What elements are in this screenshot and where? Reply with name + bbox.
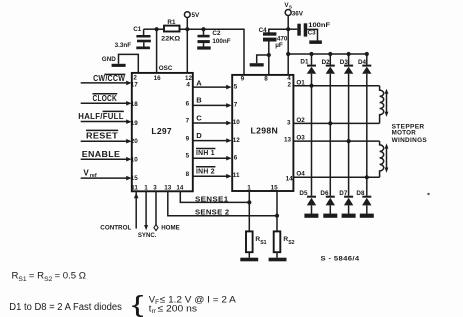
svg-text:C: C (196, 114, 202, 123)
svg-text:2: 2 (288, 82, 292, 89)
resistor R1 22KΩ (157, 19, 188, 42)
wire O1 (L298N pin 2 to winding 1) (293, 80, 379, 87)
svg-text:6: 6 (186, 101, 190, 108)
capacitor C2 100nF (198, 29, 231, 46)
svg-text:12: 12 (233, 137, 241, 144)
inductor winding 2 (between O3 and O4) (380, 141, 389, 177)
diode D4 (358, 54, 372, 196)
svg-text:SENSE 2: SENSE 2 (195, 207, 230, 216)
wire OSC vertical to L297 pin 16 (156, 29, 158, 73)
svg-text:MOTOR: MOTOR (392, 130, 417, 137)
wire B (L297 pin 6 to L298N pin 7) (193, 96, 232, 108)
svg-text:C4: C4 (259, 27, 268, 34)
node (O1/D1) (309, 84, 313, 88)
svg-text:D1 to D8 = 2 A Fast diodes: D1 to D8 = 2 A Fast diodes (9, 302, 122, 313)
wire L298N pin 1 down (248, 191, 250, 231)
wire 5V rail to L297 pin 12 (186, 29, 188, 73)
svg-text:S2: S2 (44, 276, 52, 283)
svg-text:HALF/FULL: HALF/FULL (78, 112, 124, 121)
capacitor C3 100nF (288, 22, 330, 41)
svg-text:V: V (83, 168, 89, 177)
svg-text:22KΩ: 22KΩ (161, 35, 180, 42)
svg-text:8: 8 (186, 171, 190, 178)
op-amp U1 : L297 chip box (132, 73, 193, 191)
svg-text:O3: O3 (296, 134, 305, 141)
svg-text:4: 4 (186, 82, 190, 89)
diode D5 (299, 190, 316, 214)
svg-text:9: 9 (241, 75, 245, 82)
svg-text:8: 8 (264, 75, 268, 82)
svg-text:= 0.5 Ω: = 0.5 Ω (55, 271, 86, 282)
capacitor C4 470µF (259, 27, 289, 75)
terminal 5V (184, 12, 200, 30)
svg-text:S2: S2 (288, 240, 294, 246)
svg-text:ENABLE: ENABLE (82, 150, 121, 159)
svg-text:S: S (289, 5, 292, 10)
svg-text:11: 11 (233, 172, 240, 179)
svg-text:15: 15 (271, 184, 279, 191)
svg-text:WINDINGS: WINDINGS (392, 137, 428, 144)
wire INH1 (L297 pin 5 to L298N pin 6) (193, 148, 232, 160)
transistor U2 : L298N chip box (232, 75, 293, 191)
diode D8 (356, 190, 371, 214)
svg-text:B: B (196, 96, 202, 105)
brace (132, 292, 144, 317)
note trr (149, 303, 197, 315)
svg-text:3.3nF: 3.3nF (115, 42, 132, 49)
svg-text:15: 15 (131, 175, 139, 182)
svg-text:13: 13 (284, 137, 292, 144)
wire SYNC (L297 pin 1) (138, 191, 157, 239)
ground (below RS1) (240, 258, 258, 262)
terminal Vs 36V (284, 2, 303, 75)
node (R1/C1/OSC junction) (155, 27, 159, 31)
note VF (149, 294, 237, 306)
ground (below RS2) (269, 258, 287, 262)
node (bus/D1) (309, 52, 313, 56)
svg-text:9: 9 (186, 135, 190, 142)
wire Vs diode bus (288, 53, 367, 55)
svg-text:R1: R1 (167, 19, 176, 26)
svg-text:10: 10 (233, 119, 241, 126)
node (bus/D3) (347, 52, 351, 56)
svg-text:100nF: 100nF (212, 38, 230, 45)
svg-text:16: 16 (154, 75, 162, 82)
capacitor C1 (115, 26, 151, 49)
wire L298N pin 15 down (276, 191, 278, 231)
resistor RS2 (274, 231, 295, 257)
node (O3/D3) (347, 139, 351, 143)
svg-text:C2: C2 (212, 30, 221, 37)
wire HOME (L297 pin 3, diamond end) (154, 191, 180, 231)
wire SENSE2 (L297 pin 13 to RS2/L298N pin 15) (168, 191, 277, 216)
input Vref (wire + arrow) (81, 168, 132, 180)
svg-text:D5: D5 (299, 190, 308, 197)
svg-text:3: 3 (153, 185, 157, 192)
node (O2/D2) (328, 121, 332, 125)
svg-text:20: 20 (131, 138, 139, 145)
input HALF/FULL (wire + arrow) (78, 111, 131, 124)
wire 5V rail right to L298N pin 9 (187, 29, 244, 75)
label stepper motor windings (392, 124, 428, 144)
svg-text:D: D (196, 131, 202, 140)
svg-text:CONTROL: CONTROL (100, 224, 131, 231)
node (bus/D4) (365, 52, 369, 56)
ground (below D8) (360, 214, 374, 218)
node (SENSE1 junction) (247, 200, 251, 204)
wire C1 stub to OSC node (144, 28, 157, 30)
wire A (L297 pin 4 to L298N pin 5) (193, 79, 232, 90)
ground (below D5) (304, 214, 318, 218)
diode D1 (300, 54, 316, 196)
svg-text:µF: µF (275, 42, 283, 49)
wire D (L297 pin 9 to L298N pin 12) (193, 131, 232, 143)
ground (near C4) (250, 55, 269, 67)
svg-text:≤ 200 ns: ≤ 200 ns (158, 303, 198, 314)
ground (below C1) (136, 47, 150, 50)
svg-text:rr: rr (152, 308, 157, 315)
node (O4/D4) (365, 175, 369, 179)
ground GND (L297 pin 2) (102, 54, 139, 73)
svg-text:14: 14 (176, 185, 184, 192)
wire INH2 (L297 pin 8 to L298N pin 11) (193, 166, 232, 178)
svg-text:SYNC.: SYNC. (138, 232, 157, 239)
node (5V rail junction) (185, 27, 189, 31)
svg-text:C1: C1 (133, 26, 142, 33)
input ENABLE (wire + arrow) (81, 150, 132, 161)
ground (below C2) (197, 46, 211, 49)
svg-text:SENSE1: SENSE1 (195, 194, 229, 203)
note RS1=RS2 (12, 271, 86, 283)
svg-text:S1: S1 (260, 240, 266, 246)
svg-text:INH 1: INH 1 (196, 148, 215, 157)
svg-text:S1: S1 (18, 276, 26, 283)
wire O3 (L298N pin 13 to winding 2) (293, 134, 379, 141)
svg-text:HOME: HOME (161, 224, 180, 231)
svg-text:S - 5846/4: S - 5846/4 (321, 255, 360, 262)
stray dot (427, 193, 429, 195)
svg-text:36V: 36V (292, 10, 304, 17)
svg-text:C3: C3 (308, 30, 317, 37)
svg-text:14: 14 (286, 175, 294, 182)
node (C2 junction) (201, 27, 205, 31)
svg-text:1: 1 (144, 185, 148, 192)
input RESET (wire + arrow) (81, 130, 132, 143)
svg-text:5V: 5V (192, 12, 201, 19)
svg-text:1: 1 (247, 184, 251, 191)
svg-text:L297: L297 (151, 126, 172, 136)
wire O4 (L298N pin 14 to winding 2) (293, 171, 379, 178)
node (SENSE2 junction) (275, 214, 279, 218)
resistor RS1 (246, 231, 267, 257)
wire CONTROL (L297 pin 11, arrow up) (100, 191, 138, 231)
ground (below D6) (323, 214, 337, 218)
svg-text:13: 13 (164, 185, 172, 192)
svg-text:18: 18 (131, 101, 139, 108)
svg-text:7: 7 (234, 101, 238, 108)
svg-text:11: 11 (131, 185, 138, 192)
svg-text:RESET: RESET (86, 131, 118, 140)
svg-text:L298N: L298N (251, 125, 279, 135)
svg-text:100nF: 100nF (308, 22, 330, 29)
svg-text:10: 10 (131, 156, 139, 163)
node (C4/GND/pin8 junction) (267, 53, 271, 57)
wire SENSE1 (L297 pin 14 to RS1/L298N pin 1) (180, 191, 249, 203)
svg-text:= R: = R (29, 271, 44, 282)
wire C (L297 pin 7 to L298N pin 10) (193, 114, 232, 126)
svg-text:CLOCK: CLOCK (93, 94, 118, 103)
diode D2 (322, 54, 335, 196)
wire O2 (L298N pin 3 to winding 1) (293, 117, 379, 124)
diode D3 (340, 54, 354, 196)
svg-text:3: 3 (287, 119, 291, 126)
ground (below C3) (309, 40, 322, 44)
svg-text:OSC: OSC (159, 65, 173, 72)
node (Vs bus junction) (286, 52, 290, 56)
inductor winding 1 (between O1 and O2) (380, 86, 389, 124)
svg-text:GND: GND (102, 56, 116, 63)
ground (below D7) (342, 214, 356, 218)
svg-text:17: 17 (131, 82, 139, 89)
svg-text:O4: O4 (296, 171, 305, 178)
node (bus/D2) (328, 52, 332, 56)
svg-text:7: 7 (186, 118, 190, 125)
svg-text:INH 2: INH 2 (196, 166, 215, 175)
svg-text:19: 19 (131, 120, 139, 127)
diode D6 (320, 190, 335, 214)
svg-text:5: 5 (234, 83, 238, 90)
input CW/CCW (wire + arrow) (81, 74, 132, 85)
svg-text:6: 6 (234, 155, 238, 162)
diode D7 (339, 190, 353, 214)
svg-text:5: 5 (186, 153, 190, 160)
svg-text:{: { (132, 292, 144, 317)
node (36V rail junction) (286, 27, 290, 31)
input CLOCK (wire + arrow) (81, 94, 132, 106)
svg-text:D1: D1 (300, 59, 309, 66)
